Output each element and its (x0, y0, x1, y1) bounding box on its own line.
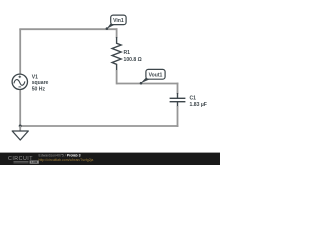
watermark bar (0, 153, 220, 165)
svg-text:http://circuitlab.com/c/bran/7: http://circuitlab.com/c/bran/7svfg2ja (39, 158, 94, 162)
capacitor C1 (170, 93, 186, 107)
wire capacitor bottom vertical (177, 106, 179, 127)
watermark logo lines (14, 161, 29, 163)
wire R1 bottom to Vout corner (116, 70, 118, 84)
wire V1 bottom vertical (19, 89, 21, 126)
wire R1 branch vertical upper (116, 28, 118, 38)
svg-text:C1: C1 (190, 96, 197, 102)
svg-text:1.83 µF: 1.83 µF (190, 102, 207, 108)
node flag Vin1 dot (106, 27, 109, 30)
node flag Vout1 dot (140, 82, 143, 85)
wire Vout horizontal (117, 83, 179, 85)
svg-text:LAB: LAB (31, 160, 38, 164)
svg-text:100.8 Ω: 100.8 Ω (124, 57, 142, 63)
node flag Vin1 box (111, 15, 126, 25)
svg-text:R1: R1 (124, 50, 131, 56)
svg-text:Vin1: Vin1 (113, 18, 124, 24)
svg-text:Edwardson4075 / Prolab 3: Edwardson4075 / Prolab 3 (39, 153, 81, 157)
voltage source V1 (12, 74, 27, 89)
node flag Vout1 pointer (141, 77, 150, 83)
ground symbol (12, 131, 28, 140)
junction dot at ground node (19, 125, 22, 128)
wire bottom horizontal (20, 125, 178, 127)
svg-text:50 Hz: 50 Hz (32, 86, 46, 92)
wire top horizontal (19, 28, 117, 30)
resistor R1 (112, 37, 121, 71)
wire left vertical top (V1 top to corner) (19, 29, 21, 74)
svg-text:square: square (32, 80, 49, 86)
svg-text:Vout1: Vout1 (149, 72, 163, 78)
wire ground stub (19, 126, 21, 131)
watermark logo LAB (30, 161, 39, 164)
node flag Vout1 box (146, 69, 165, 79)
node flag Vin1 pointer (107, 23, 115, 29)
wire right vertical to capacitor (177, 83, 179, 94)
